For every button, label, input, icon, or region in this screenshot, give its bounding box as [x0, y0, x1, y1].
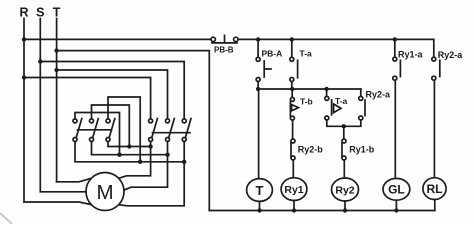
contact Ry2-a mid blade: [364, 100, 366, 116]
junction A-wrap on B wire: [117, 153, 121, 157]
svg-text:Ry2-a: Ry2-a: [366, 90, 392, 100]
contact bank right R bottom terminal: [182, 138, 186, 142]
contact bank left C blade: [109, 119, 115, 138]
svg-text:T-b: T-b: [300, 97, 313, 107]
junction GL on bus: [394, 208, 398, 212]
junction node at T-a2: [324, 87, 328, 91]
contact Ry2-a right blade: [439, 60, 441, 76]
coil T: [247, 179, 273, 202]
node R tap wrap: [22, 75, 26, 79]
svg-text:T-a: T-a: [300, 49, 313, 59]
wire control bottom bus: [209, 210, 434, 212]
wire T wrap to right bank middle contact: [57, 70, 168, 119]
contact bank left B top terminal: [90, 119, 94, 123]
contact bank right M blade: [169, 119, 175, 138]
wire left C bottom to right bank left stub: [108, 142, 151, 147]
wire Ry1 coil to bus: [293, 201, 295, 211]
svg-text:M: M: [96, 181, 113, 204]
wire node to T coil: [258, 89, 260, 179]
contact bank right L blade: [152, 119, 158, 138]
motor M1: [86, 173, 124, 211]
contact bank left B bottom terminal: [90, 138, 94, 142]
svg-text:Ry1-a: Ry1-a: [398, 50, 424, 60]
wire left C top wrap over to A bottom wire: [108, 97, 140, 162]
contact bank right M top terminal: [166, 119, 170, 123]
wire left B bottom to right bank middle stub: [92, 142, 168, 155]
contact T-a row1 terminals: [290, 57, 294, 61]
wire phase S vertical: [39, 19, 41, 192]
pushbutton PB-A terminals: [256, 57, 260, 61]
contact Ry1-b terminals: [342, 139, 346, 143]
wire node to T-a2: [326, 89, 328, 96]
svg-text:T-a: T-a: [335, 96, 348, 106]
wire Ry2 coil to bus: [344, 201, 346, 211]
wire right R to motor lower-right: [118, 142, 184, 206]
junction right R stub: [182, 160, 186, 164]
junction right L stub: [148, 144, 152, 148]
svg-text:R: R: [19, 6, 28, 20]
contact Ry2-a right terminals: [432, 57, 436, 61]
node R tap to control top bus: [22, 37, 26, 41]
wire S to motor left: [40, 191, 86, 193]
pushbutton PB-A plunger: [264, 61, 271, 77]
svg-text:GL: GL: [388, 183, 405, 197]
junction Ry2 on bus: [343, 208, 347, 212]
wire stub to PB-A: [257, 39, 259, 57]
contact bank left C top terminal: [106, 119, 110, 123]
contact Ry1-a blade: [399, 60, 401, 76]
wire stub to Ry1-a: [394, 39, 396, 57]
junction joined bottoms: [342, 124, 346, 128]
node line self-hold: [258, 88, 361, 90]
wire T-a2 and Ry2-a bottoms join: [327, 120, 361, 126]
contact T-a2 delay triangle: [334, 104, 341, 113]
wire RL to bus: [434, 200, 436, 211]
svg-text:RL: RL: [427, 182, 443, 196]
scan smear artifact bottom-left: [0, 213, 12, 224]
wire left B top wrap over to C bottom wire: [92, 105, 130, 147]
contact T-b blade: [289, 101, 291, 116]
wire T-a to node: [291, 82, 293, 89]
coil Ry1: [281, 178, 307, 201]
contact bank left C bottom terminal: [106, 138, 110, 142]
wire Ry2-b to Ry1 coil: [292, 160, 294, 178]
wire phase R vertical: [23, 19, 25, 203]
contact Ry2-b blade: [290, 143, 292, 156]
contact T-a row1 blade: [297, 60, 299, 78]
junction B-wrap on C wire: [127, 144, 131, 148]
svg-text:PB-A: PB-A: [262, 49, 283, 59]
svg-text:Ry2-b: Ry2-b: [298, 145, 324, 155]
wire control top bus right segment: [238, 39, 434, 57]
contact Ry2-b terminals: [291, 139, 295, 143]
wire T feed to control bottom right side: [57, 51, 210, 211]
contact bank left A bottom terminal: [73, 138, 77, 142]
coil Ry2: [332, 178, 359, 201]
contact T-b delay triangle: [292, 105, 299, 111]
contact Ry1-b blade: [341, 143, 343, 156]
node T tap to control bottom bus: [54, 48, 58, 52]
left bank linkage bar: [78, 129, 112, 131]
junction T-a branch: [290, 37, 294, 41]
svg-text:Ry1-b: Ry1-b: [349, 145, 375, 155]
wire Ry1-a to GL: [394, 80, 396, 178]
svg-text:Ry1: Ry1: [284, 184, 303, 196]
contact Ry2-a mid terminals: [359, 96, 363, 100]
wire left A top wrap over to B bottom wire: [75, 113, 120, 155]
wire Ry2-a to RL: [433, 80, 435, 178]
wire node corner to Ry2-a mid: [360, 89, 362, 96]
wire phase T vertical: [56, 19, 58, 182]
wire right M to motor right: [124, 142, 168, 191]
pushbutton PB-B terminals: [211, 37, 215, 41]
contact bank right R top terminal: [182, 119, 186, 123]
junction C-wrap on A wire: [138, 160, 142, 164]
wire right L to motor upper-right: [118, 142, 150, 179]
wire node to T-b: [291, 89, 293, 97]
lamp RL: [423, 178, 446, 200]
junction node at PB-A: [256, 87, 260, 91]
wire control top bus left segment: [24, 38, 212, 40]
pushbutton PB-B bridge and plunger: [212, 35, 237, 43]
junction T on bus: [257, 208, 261, 212]
wire S wrap to right bank right contact: [40, 62, 184, 119]
node T tap wrap: [54, 68, 58, 72]
contact bank right M bottom terminal: [166, 138, 170, 142]
svg-text:T: T: [53, 6, 61, 20]
node S tap wrap: [38, 59, 42, 63]
right bank linkage bar: [153, 132, 191, 134]
contact T-b terminals: [290, 97, 294, 101]
contact bank left A top terminal: [73, 119, 77, 123]
wire T coil to bus: [259, 201, 261, 210]
wire stub to T-a: [291, 39, 293, 57]
contact bank right L top terminal: [149, 119, 153, 123]
wire GL to bus: [395, 200, 397, 210]
junction PB-A branch: [256, 37, 260, 41]
junction right M stub: [165, 153, 169, 157]
contact T-a2 blade: [331, 100, 333, 115]
contact T-a2 terminals: [325, 96, 329, 100]
svg-text:PB-B: PB-B: [214, 46, 234, 55]
contact bank left B blade: [93, 119, 99, 138]
wire to Ry1-b: [343, 126, 345, 139]
wire R to motor lower-left: [24, 202, 92, 205]
wire T to motor upper-left: [57, 178, 92, 182]
svg-text:Ry2: Ry2: [335, 184, 354, 196]
wire PB-A to node: [257, 82, 259, 89]
svg-text:S: S: [36, 6, 44, 20]
svg-text:Ry2-a: Ry2-a: [438, 50, 464, 60]
contact bank right R blade: [185, 119, 191, 138]
junction Ry1-a branch: [393, 37, 397, 41]
contact bank right L bottom terminal: [149, 138, 153, 142]
junction Ry1 on bus: [292, 208, 296, 212]
lamp GL: [383, 178, 410, 200]
junction node at T-b: [290, 87, 294, 91]
contact bank left A blade: [76, 119, 82, 138]
contact Ry1-a terminals: [393, 57, 397, 61]
svg-text:T: T: [256, 183, 264, 198]
wire Ry1-b to Ry2 coil: [343, 160, 345, 178]
wire left A bottom to right bank right stub: [75, 142, 184, 162]
wire T-b to Ry2-b: [292, 120, 294, 139]
wire R wrap to right bank left contact: [24, 78, 151, 119]
